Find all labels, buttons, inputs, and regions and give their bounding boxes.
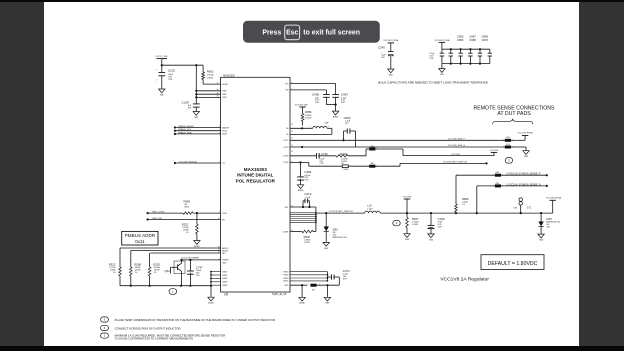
svg-text:C747: C747 bbox=[196, 265, 203, 269]
svg-text:PMBUS ADDR: PMBUS ADDR bbox=[125, 233, 156, 238]
power flag VCC1V8_FPGA for C240 bbox=[383, 39, 399, 51]
svg-text:33: 33 bbox=[291, 151, 293, 153]
svg-text:0.1µF: 0.1µF bbox=[306, 197, 312, 199]
capacitor C240 bbox=[378, 46, 394, 69]
svg-text:AGND: AGND bbox=[208, 302, 214, 305]
svg-text:1%: 1% bbox=[154, 272, 157, 274]
U9 pin numbers bbox=[218, 82, 293, 260]
svg-text:1%: 1% bbox=[113, 272, 116, 274]
svg-text:VCC1V8_PGOOD: VCC1V8_PGOOD bbox=[179, 161, 197, 163]
wire ADDR0 bbox=[120, 247, 221, 249]
svg-text:Q32: Q32 bbox=[164, 269, 170, 273]
note marker 2 near sense bbox=[505, 158, 512, 164]
svg-text:REG_SYNC: REG_SYNC bbox=[153, 212, 165, 214]
svg-text:1: 1 bbox=[503, 147, 504, 149]
svg-text:DNP: DNP bbox=[324, 123, 329, 125]
wire Z37 to C271 gnd bbox=[317, 284, 340, 297]
wire Z36 to VCC1V8_FPGA flag bbox=[511, 136, 525, 141]
svg-text:PLACE TEMP COMPENSATION TRANSI: PLACE TEMP COMPENSATION TRANSISTOR ON TH… bbox=[115, 318, 275, 322]
svg-text:GND: GND bbox=[539, 240, 544, 242]
inductor DNP coil bbox=[310, 123, 332, 129]
diode D25 bbox=[538, 213, 560, 234]
svg-text:PGND: PGND bbox=[283, 275, 289, 277]
svg-text:CONNECT ACROSS PINS OF OUTPUT: CONNECT ACROSS PINS OF OUTPUT INDUCTOR bbox=[115, 326, 181, 330]
ground for D32 bbox=[323, 242, 329, 249]
svg-text:GND: GND bbox=[524, 156, 529, 158]
svg-text:SGND: SGND bbox=[222, 285, 228, 287]
svg-text:REG_EN: REG_EN bbox=[153, 218, 162, 220]
power flag VCC1V8 at bus bbox=[403, 196, 412, 213]
svg-text:20: 20 bbox=[291, 131, 293, 133]
svg-text:C384: C384 bbox=[304, 170, 311, 174]
svg-text:PGND: PGND bbox=[283, 271, 289, 273]
wire VCC1V8_SYSMON_SENSE_P bbox=[501, 174, 548, 177]
wire VCC1V8_RET_SWITCH to L10 bbox=[316, 211, 365, 214]
svg-text:Esc: Esc bbox=[286, 30, 298, 37]
ground for D25 bbox=[538, 234, 544, 241]
svg-text:R202: R202 bbox=[153, 262, 160, 266]
svg-text:2 VCC1V8_SYSMON_SENSE_N: 2 VCC1V8_SYSMON_SENSE_N bbox=[506, 184, 540, 186]
svg-text:NOISE: NOISE bbox=[222, 84, 228, 86]
wire DCRN bbox=[290, 155, 317, 157]
svg-text:TO AVOID CONTRIBUTION TO CURRE: TO AVOID CONTRIBUTION TO CURRENT MEASURE… bbox=[115, 336, 194, 340]
svg-text:1: 1 bbox=[156, 69, 157, 71]
net tie Z80 bbox=[368, 146, 378, 151]
svg-text:1%: 1% bbox=[186, 232, 189, 234]
svg-text:GND: GND bbox=[429, 239, 434, 241]
svg-text:C430: C430 bbox=[312, 93, 320, 97]
svg-text:PGND: PGND bbox=[283, 281, 289, 283]
svg-text:VCC1V8_FPGA: VCC1V8_FPGA bbox=[518, 131, 534, 134]
svg-text:AGND: AGND bbox=[299, 302, 305, 305]
label VCC1V8 2A Regulator bbox=[440, 276, 489, 282]
diode D32 bbox=[324, 213, 348, 242]
svg-text:SGND: SGND bbox=[222, 282, 228, 284]
svg-text:SCLA: SCLA bbox=[222, 130, 227, 133]
wire to Z80 bbox=[366, 149, 369, 156]
wire Q32 emitter to bus bbox=[181, 274, 183, 286]
resistor R223 bbox=[182, 213, 198, 241]
svg-text:3P3: 3P3 bbox=[285, 83, 288, 85]
wire PMBUS_SCL bbox=[174, 129, 221, 132]
svg-text:C271: C271 bbox=[343, 269, 350, 273]
svg-text:C199: C199 bbox=[438, 217, 445, 221]
svg-text:VCC3V3_SW: VCC3V3_SW bbox=[295, 104, 308, 106]
svg-text:X7R: X7R bbox=[196, 275, 200, 277]
svg-text:D25: D25 bbox=[546, 217, 552, 221]
svg-text:GND: GND bbox=[160, 94, 165, 96]
svg-text:3: 3 bbox=[219, 132, 220, 134]
capacitor C231 bbox=[156, 65, 175, 89]
capacitor C413 bbox=[303, 192, 312, 207]
resistor R202 bbox=[148, 253, 160, 286]
svg-text:C139: C139 bbox=[182, 100, 190, 104]
svg-text:32: 32 bbox=[291, 145, 293, 147]
power flag VCC3V3_SW bbox=[295, 104, 308, 112]
ground for Z35 bbox=[523, 151, 529, 158]
svg-text:VCC1V8_FPGA: VCC1V8_FPGA bbox=[383, 39, 399, 42]
capacitor C747 bbox=[187, 260, 203, 286]
svg-text:1/16W: 1/16W bbox=[305, 117, 311, 119]
svg-text:C413: C413 bbox=[304, 192, 311, 196]
ground for bulk caps bbox=[439, 64, 445, 76]
jumper J71 bbox=[514, 198, 532, 213]
svg-text:GND: GND bbox=[324, 248, 329, 250]
resistor R738 series bbox=[342, 165, 369, 171]
net tie Z85 bbox=[493, 183, 503, 188]
svg-text:R223: R223 bbox=[182, 223, 189, 227]
svg-text:VCC1V8: VCC1V8 bbox=[403, 196, 412, 198]
net tie Z35 bbox=[503, 144, 513, 149]
svg-text:46: 46 bbox=[218, 247, 220, 249]
capacitor C467 bbox=[332, 93, 348, 105]
bulk capacitor bank bbox=[440, 49, 492, 63]
svg-text:GND: GND bbox=[284, 285, 289, 287]
wire Z84 row bbox=[456, 174, 495, 176]
svg-text:X5R: X5R bbox=[341, 102, 346, 104]
svg-text:VCC12_SW: VCC12_SW bbox=[156, 56, 169, 58]
svg-text:16V: 16V bbox=[188, 108, 192, 110]
svg-text:VCC1V8_FPGA: VCC1V8_FPGA bbox=[546, 196, 562, 199]
svg-text:VCC1V8 2A Regulator: VCC1V8 2A Regulator bbox=[440, 276, 489, 282]
op-amp U9 MAX15303 regulator IC bbox=[221, 74, 290, 296]
U9 right pin labels bbox=[282, 83, 289, 287]
svg-text:PWR: PWR bbox=[222, 97, 227, 99]
note marker 1 below Q32 bbox=[169, 289, 177, 295]
capacitor C430 bbox=[312, 93, 330, 105]
capacitor C736 bbox=[317, 152, 337, 165]
svg-text:X7R: X7R bbox=[320, 163, 324, 165]
ground AGND for C430 C467 bbox=[332, 111, 339, 118]
wire Q32 collector to TEMPN bbox=[180, 259, 182, 261]
svg-text:R947: R947 bbox=[412, 217, 419, 221]
svg-text:1.69kΩ: 1.69kΩ bbox=[207, 75, 214, 77]
power flag VCC12_SW bbox=[156, 56, 169, 65]
svg-text:R508: R508 bbox=[134, 262, 141, 266]
ground AGND for R223 bbox=[194, 241, 201, 248]
svg-text:MAX15303: MAX15303 bbox=[223, 74, 235, 77]
svg-text:X7R: X7R bbox=[343, 279, 347, 281]
svg-text:VCC1V8_SNS_P: VCC1V8_SNS_P bbox=[448, 139, 465, 141]
svg-text:R222: R222 bbox=[109, 262, 116, 266]
wire analog ground bus bbox=[120, 285, 212, 287]
wire CS bundle bbox=[290, 207, 317, 232]
capacitor C271 bbox=[327, 269, 350, 285]
svg-text:R369: R369 bbox=[184, 199, 191, 203]
resistor R508 bbox=[130, 251, 142, 286]
svg-text:5: 5 bbox=[219, 258, 220, 260]
wire output bus bbox=[380, 212, 553, 214]
svg-text:DCRN: DCRN bbox=[283, 156, 289, 158]
note 1 text bbox=[115, 333, 226, 340]
capacitor C363 bbox=[344, 116, 356, 134]
wire VIN rail bbox=[290, 90, 326, 95]
wire 3P3 rail bbox=[290, 84, 336, 95]
resistor R369 bbox=[183, 199, 221, 214]
svg-text:PMBUS_SDA: PMBUS_SDA bbox=[178, 131, 192, 134]
wire Z35 to GND bbox=[511, 147, 526, 151]
svg-text:DCRP: DCRP bbox=[283, 162, 289, 164]
inductor L10 bbox=[365, 204, 381, 214]
svg-text:C231: C231 bbox=[168, 69, 176, 73]
wire VCC1V8_SYSMON_SENSE_N bbox=[501, 184, 548, 187]
wire VCC12_SW rail bbox=[161, 64, 203, 66]
wire bulk cap top rail bbox=[442, 48, 490, 50]
transistor Q32 bbox=[164, 261, 185, 274]
svg-text:R662: R662 bbox=[207, 69, 214, 73]
resistor R836 bbox=[455, 175, 469, 212]
label box DEFAULT voltage bbox=[481, 255, 544, 270]
svg-text:1%: 1% bbox=[462, 204, 465, 206]
svg-text:TQFN_48_UP: TQFN_48_UP bbox=[272, 294, 287, 296]
wire VCC1V8_RET_SWITCH upper bbox=[375, 162, 487, 167]
svg-text:BULK CAPACITORS ARE NEEDED TO: BULK CAPACITORS ARE NEEDED TO MEET LOAD … bbox=[378, 81, 488, 85]
svg-text:to exit full screen: to exit full screen bbox=[303, 30, 360, 37]
svg-text:INTUNE DIGITAL: INTUNE DIGITAL bbox=[237, 173, 274, 178]
wire VCC1V8_SNS_N bbox=[290, 145, 505, 148]
svg-text:SYNC: SYNC bbox=[222, 213, 228, 215]
wire ADDR1 bbox=[131, 250, 221, 252]
svg-text:SGND: SGND bbox=[222, 271, 228, 273]
svg-text:24: 24 bbox=[217, 89, 219, 91]
svg-text:DNI: DNI bbox=[514, 207, 518, 209]
toast press esc to exit full screen bbox=[243, 21, 380, 43]
wire PMBUS_SDA bbox=[174, 131, 221, 135]
wire cap bottoms to AGND bbox=[326, 104, 336, 112]
ground for C139 bbox=[193, 112, 199, 119]
resistor R881 bbox=[301, 110, 312, 126]
svg-text:AGND: AGND bbox=[194, 245, 200, 248]
wire Z85 branch bbox=[477, 186, 495, 213]
svg-text:GND: GND bbox=[222, 263, 227, 265]
note 3 text bbox=[115, 318, 275, 322]
svg-text:MBRS240LT3G: MBRS240LT3G bbox=[333, 237, 347, 239]
wire PWR feed vertical bbox=[195, 65, 197, 104]
svg-text:OUTN: OUTN bbox=[283, 147, 289, 149]
svg-text:C956: C956 bbox=[457, 38, 464, 42]
svg-text:PMBUS_ALERT: PMBUS_ALERT bbox=[178, 125, 195, 128]
svg-text:X7R: X7R bbox=[304, 180, 308, 182]
svg-text:AT DUT PADS: AT DUT PADS bbox=[497, 111, 531, 117]
U9 left pin labels bbox=[222, 84, 230, 287]
svg-text:18: 18 bbox=[291, 124, 293, 126]
svg-text:1: 1 bbox=[493, 175, 494, 177]
ground for R947 bbox=[404, 234, 410, 241]
svg-text:VCC1V8_FPGA: VCC1V8_FPGA bbox=[434, 39, 450, 42]
wire PGND bundle bbox=[290, 272, 328, 282]
svg-text:1.5µH: 1.5µH bbox=[367, 208, 373, 210]
resistor R947 below bus bbox=[406, 213, 419, 234]
label bulk cap value bbox=[429, 53, 435, 60]
svg-text:SALERT: SALERT bbox=[222, 126, 230, 129]
note 2 text bbox=[115, 326, 181, 330]
svg-text:0x11: 0x11 bbox=[135, 239, 145, 244]
svg-text:PGND: PGND bbox=[283, 278, 289, 280]
svg-text:SGND: SGND bbox=[222, 275, 228, 277]
svg-text:1/16W: 1/16W bbox=[412, 224, 418, 226]
label remote sense connections bbox=[474, 105, 556, 117]
power flag VCC1V8_FPGA at bus bbox=[546, 196, 562, 213]
brace under remote sense label bbox=[493, 119, 533, 125]
ground AGND below Z37 bbox=[299, 285, 306, 305]
capacitor C384 bbox=[297, 162, 312, 184]
note marker 2 bottom bbox=[101, 325, 109, 330]
wire C363 taps bbox=[342, 131, 355, 147]
resistor R719 bbox=[336, 152, 366, 165]
wire REG_EN bbox=[147, 218, 221, 221]
svg-text:2: 2 bbox=[219, 129, 220, 131]
svg-text:PWR: PWR bbox=[222, 91, 227, 93]
capacitor C139 bbox=[182, 100, 200, 111]
svg-text:26: 26 bbox=[217, 96, 219, 98]
resistor R662 bbox=[202, 65, 214, 84]
svg-text:GND: GND bbox=[325, 303, 330, 305]
svg-text:25: 25 bbox=[217, 92, 219, 94]
wire Z84 branch bbox=[455, 212, 457, 213]
svg-text:C736: C736 bbox=[321, 152, 328, 156]
svg-text:C467: C467 bbox=[341, 93, 349, 97]
svg-text:47: 47 bbox=[218, 249, 220, 251]
svg-text:OUTP: OUTP bbox=[283, 140, 289, 142]
wire SET bbox=[150, 252, 220, 254]
svg-text:SGND: SGND bbox=[222, 278, 228, 280]
wire VCC1V8_PGOOD bbox=[174, 161, 221, 164]
wire REG_SYNC bbox=[147, 212, 184, 215]
svg-text:1: 1 bbox=[503, 140, 504, 142]
wire LB loop bbox=[290, 128, 332, 134]
svg-text:TEMPN: TEMPN bbox=[222, 260, 229, 262]
wire to NOISE pin bbox=[203, 82, 221, 84]
svg-text:11: 11 bbox=[217, 82, 219, 84]
svg-text:X5R: X5R bbox=[438, 226, 442, 228]
svg-text:VCC1V8: VCC1V8 bbox=[490, 150, 499, 152]
svg-text:GND: GND bbox=[194, 117, 199, 119]
wire VCC1V8_SNS_P bbox=[290, 139, 505, 141]
svg-text:D32: D32 bbox=[333, 227, 339, 231]
svg-text:X5R: X5R bbox=[429, 58, 433, 60]
svg-text:R719: R719 bbox=[340, 152, 347, 156]
ground AGND for SGND bbox=[208, 297, 215, 304]
svg-text:VCC1V8_SNS_N: VCC1V8_SNS_N bbox=[448, 145, 465, 147]
svg-text:C970: C970 bbox=[482, 38, 489, 42]
resistor R222 bbox=[109, 248, 121, 286]
svg-text:U9: U9 bbox=[224, 293, 228, 297]
svg-text:2 VCC1V8_SYSMON_SENSE_P: 2 VCC1V8_SYSMON_SENSE_P bbox=[506, 174, 540, 176]
wire DCRP bbox=[290, 161, 342, 166]
svg-text:48: 48 bbox=[218, 252, 220, 254]
svg-text:C240: C240 bbox=[378, 46, 385, 50]
svg-text:GND: GND bbox=[440, 74, 445, 76]
svg-text:X5R: X5R bbox=[315, 102, 320, 104]
svg-text:POL REGULATOR: POL REGULATOR bbox=[236, 179, 276, 184]
svg-text:R946: R946 bbox=[304, 235, 311, 239]
capacitor C199 bbox=[428, 213, 445, 234]
svg-text:31: 31 bbox=[291, 138, 293, 140]
svg-text:VCC1V8_RET_SWITCH: VCC1V8_RET_SWITCH bbox=[329, 211, 353, 213]
svg-text:J71: J71 bbox=[527, 205, 532, 209]
ground AGND for C384 bbox=[297, 185, 304, 192]
svg-text:1: 1 bbox=[219, 126, 220, 128]
svg-text:R881: R881 bbox=[305, 110, 312, 114]
wire SGND bundle bbox=[210, 271, 221, 298]
wire VCC1V8 net bbox=[375, 149, 494, 156]
svg-text:GND: GND bbox=[405, 239, 410, 241]
net tie Z36 bbox=[503, 137, 513, 142]
label box PMBUS ADDR bbox=[122, 231, 158, 245]
svg-text:AGND: AGND bbox=[298, 189, 304, 192]
svg-text:X7R: X7R bbox=[168, 79, 173, 81]
svg-text:DEFAULT = 1.80VDC: DEFAULT = 1.80VDC bbox=[488, 261, 538, 267]
svg-text:1: 1 bbox=[493, 186, 494, 188]
wire RST bbox=[290, 206, 316, 208]
power flag VCC1V8 line end bbox=[490, 150, 499, 156]
svg-text:PMBUS_SCL: PMBUS_SCL bbox=[178, 129, 192, 131]
svg-text:VCC1V8: VCC1V8 bbox=[451, 154, 460, 156]
svg-text:L10: L10 bbox=[367, 204, 372, 208]
svg-text:1/16W: 1/16W bbox=[207, 78, 213, 80]
svg-text:2: 2 bbox=[219, 162, 220, 164]
svg-text:C968: C968 bbox=[469, 38, 476, 42]
svg-text:Press: Press bbox=[262, 30, 281, 37]
wire GND pin bbox=[290, 284, 307, 286]
ground for C199 bbox=[428, 234, 434, 241]
svg-text:R836: R836 bbox=[462, 197, 469, 201]
net tie Z84 bbox=[493, 172, 503, 177]
power flag VCC1V8_FPGA bulk bbox=[434, 39, 450, 49]
svg-text:AGND: AGND bbox=[333, 116, 339, 119]
svg-text:MAX15303: MAX15303 bbox=[244, 167, 267, 172]
note marker 3 bottom bbox=[101, 317, 109, 322]
svg-text:C363: C363 bbox=[344, 116, 351, 120]
ground for C231 bbox=[159, 89, 165, 96]
svg-text:LXSNS: LXSNS bbox=[282, 231, 289, 233]
wire PMBUS_ALERT bbox=[174, 125, 221, 129]
label bulk capacitors note bbox=[378, 81, 488, 85]
net tie ZB1 bbox=[368, 163, 378, 168]
svg-text:10: 10 bbox=[218, 218, 220, 220]
note marker 1 bottom bbox=[101, 333, 109, 338]
ground for C240 bbox=[388, 69, 394, 76]
svg-text:1%: 1% bbox=[135, 272, 138, 274]
svg-text:2: 2 bbox=[156, 79, 157, 81]
svg-text:PWR: PWR bbox=[222, 94, 227, 96]
resistor R946 LXSNS bbox=[290, 230, 316, 244]
svg-text:1.00kΩ: 1.00kΩ bbox=[342, 169, 348, 171]
note marker 3 bbox=[393, 220, 400, 225]
wire UB bbox=[290, 127, 313, 129]
wire VCC1V8_TEMPN bbox=[182, 258, 221, 261]
svg-text:3: 3 bbox=[219, 212, 220, 214]
svg-text:VCC1V8_RET_SWITCH: VCC1V8_RET_SWITCH bbox=[443, 162, 467, 164]
net tie Z37 bbox=[308, 284, 320, 292]
svg-text:GND: GND bbox=[389, 74, 394, 76]
label bulk capacitor designators bbox=[457, 35, 489, 42]
ground GND below C271 bbox=[324, 297, 330, 304]
wire bulk cap bottom rail bbox=[442, 63, 490, 65]
wire PWR pins bbox=[196, 89, 220, 98]
power flag VCC1V8_FPGA right bbox=[518, 131, 534, 135]
svg-text:1/16W: 1/16W bbox=[304, 242, 310, 244]
